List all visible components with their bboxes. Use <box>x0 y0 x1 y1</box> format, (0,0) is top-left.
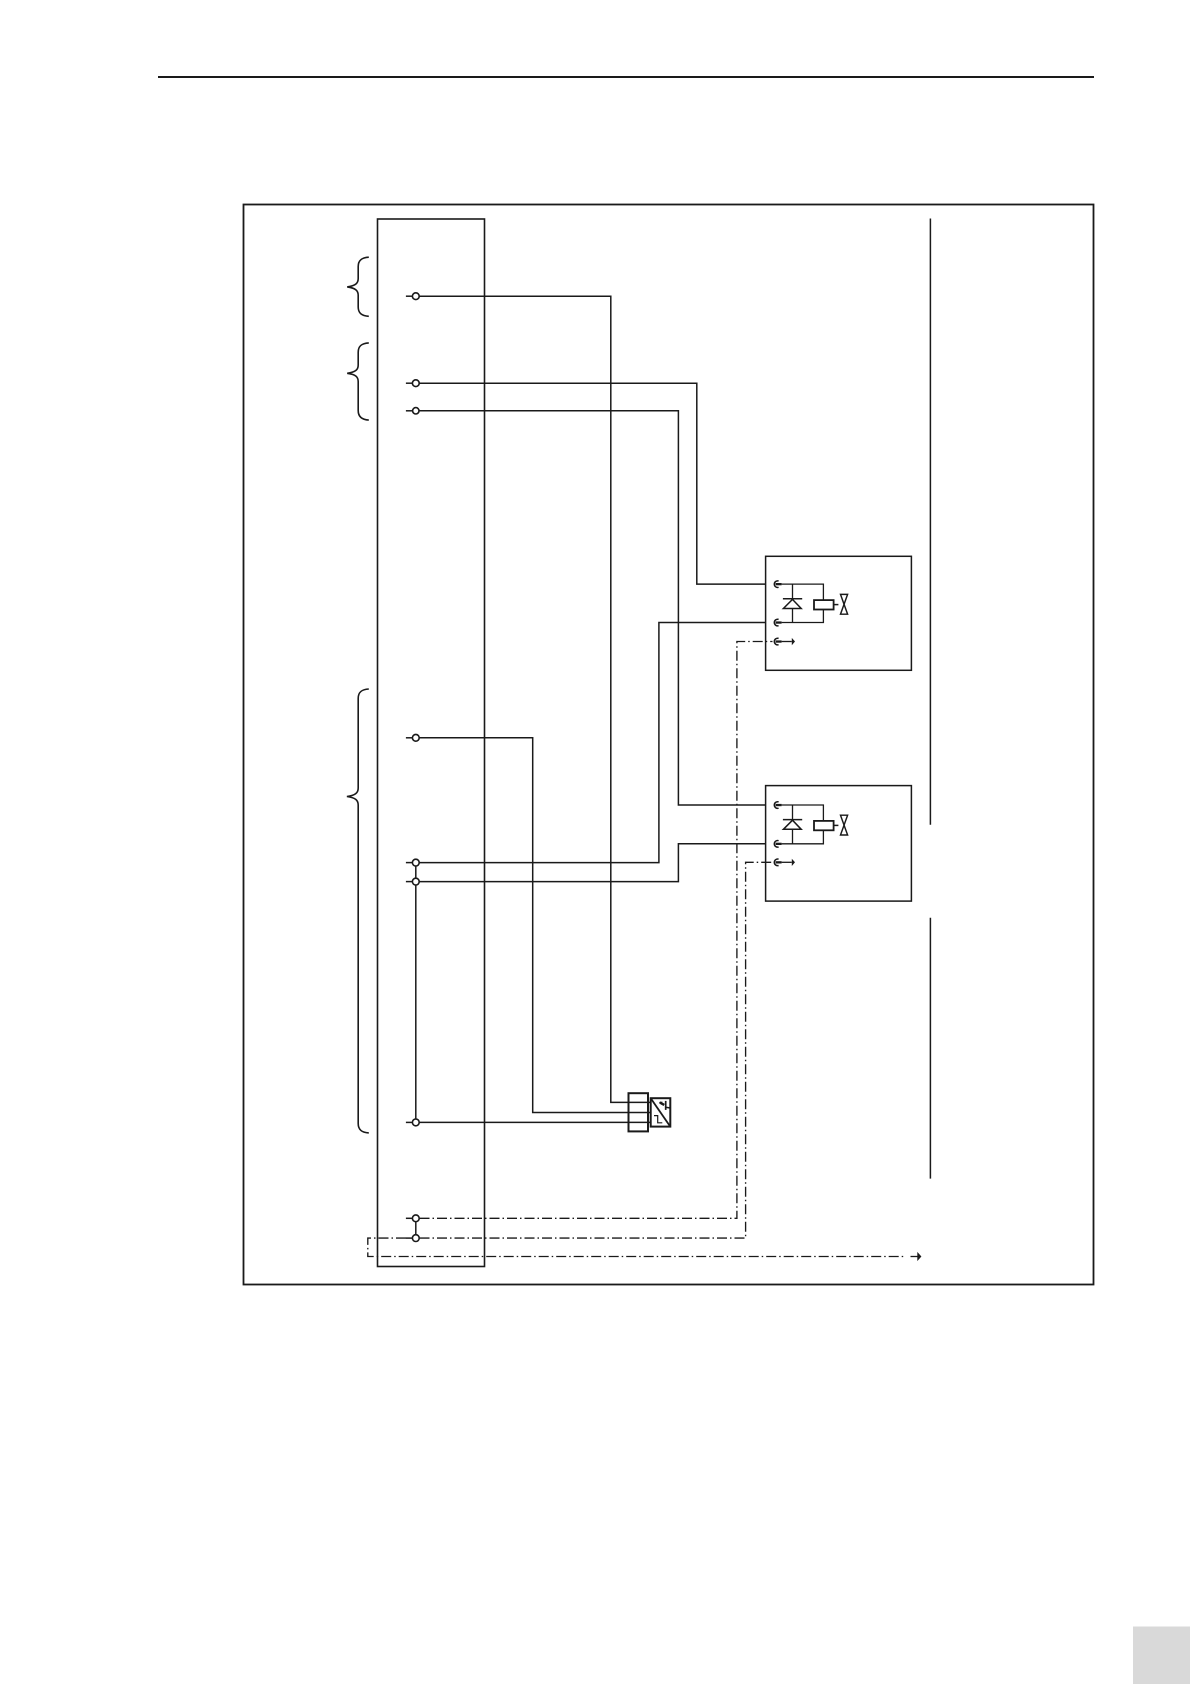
terminal T9 stub <box>406 1237 413 1239</box>
terminal T3 <box>413 408 419 414</box>
terminal T1 <box>412 293 419 300</box>
bus line segment 1 <box>929 219 931 825</box>
step symbol <box>654 1116 662 1123</box>
terminal T4 <box>412 734 419 741</box>
wire T6 to valve unit 2 pin2 <box>419 844 765 882</box>
terminal T2 <box>412 380 419 387</box>
wire T2 to valve unit 1 pin1 <box>419 383 765 584</box>
terminal T1 stub <box>406 295 413 297</box>
solenoid coil <box>814 600 834 609</box>
terminal T4 stub <box>406 737 413 739</box>
terminal T5 <box>412 859 419 866</box>
link to valve <box>834 604 839 606</box>
wire T3 to valve unit 2 pin1 <box>419 411 765 805</box>
terminal T6 <box>412 878 419 885</box>
terminal T3 stub <box>406 410 413 412</box>
coil loop wiring <box>782 584 824 622</box>
pin3 connector <box>774 638 778 645</box>
pin1 connector <box>774 802 778 809</box>
terminal T8 <box>412 1215 419 1222</box>
solenoid coil <box>814 821 834 830</box>
freewheel diode <box>792 805 794 844</box>
screened wire T8 to valve unit 1 pin3 (dash-dot) <box>420 642 773 1219</box>
link to valve <box>834 824 839 826</box>
valve symbol <box>841 594 848 604</box>
sensor connector strip <box>629 1093 649 1131</box>
valve unit 2 box <box>766 786 912 902</box>
valve unit 2 internals <box>774 802 847 866</box>
wire T1 to sensor pin1 <box>419 296 651 1102</box>
pin2 connector <box>774 841 778 848</box>
valve symbol <box>841 815 848 825</box>
coil loop wiring <box>782 805 824 844</box>
terminal T8 stub <box>406 1217 413 1219</box>
wire T7 to sensor pin3 <box>419 1121 651 1123</box>
diagram frame <box>244 205 1094 1285</box>
bus line segment 2 <box>929 918 931 1179</box>
terminal T9 <box>412 1235 419 1242</box>
valve unit 1 internals <box>774 581 847 645</box>
brace 3 <box>347 689 369 1133</box>
brace 1 <box>347 257 369 316</box>
control unit J217 (tall box) <box>378 219 485 1267</box>
brace 2 <box>347 343 369 420</box>
pressure sensor box <box>651 1098 671 1126</box>
terminal T7 stub <box>406 1121 413 1123</box>
wire T4 to sensor pin2 <box>419 738 651 1113</box>
pin3 connector <box>774 859 778 866</box>
wire: terminal vertical link T5-T6-T7 <box>415 863 417 1123</box>
valve unit 1 box <box>766 556 912 670</box>
header rule <box>158 76 1094 78</box>
pin3 arrow <box>782 861 792 863</box>
terminal T7 <box>412 1119 419 1126</box>
screened wire T9 to valve unit 2 pin3 (dash-dot) <box>420 862 773 1238</box>
page corner marker <box>1133 1627 1190 1684</box>
pin2 connector <box>774 619 778 626</box>
wire: terminal vertical link T8-T9 <box>415 1218 417 1238</box>
pin3 arrow <box>782 641 792 643</box>
arrow glyph <box>665 1101 667 1110</box>
wire T5 to valve unit 1 pin2 <box>419 623 765 863</box>
terminal T6 stub <box>406 881 413 883</box>
terminal T5 stub <box>406 862 413 864</box>
screen continuation line with arrow (dash-dot) <box>368 1238 906 1256</box>
freewheel diode <box>792 584 794 622</box>
screen arrow head <box>917 1252 921 1261</box>
terminal T2 stub <box>406 382 413 384</box>
pin1 connector <box>774 581 778 588</box>
